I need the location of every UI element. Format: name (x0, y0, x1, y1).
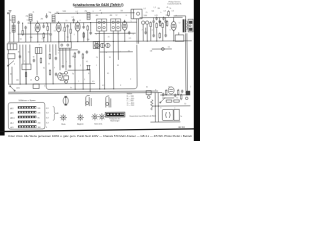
svg-text:S: S (162, 96, 163, 98)
oscillator coil L5 (87, 13, 90, 20)
wire top thin bus (55, 12, 135, 15)
resistor R12 (159, 32, 161, 38)
wire right top bus (140, 16, 183, 18)
wire (37, 33, 39, 41)
lamp icon C (106, 96, 111, 108)
left black bar (0, 0, 5, 136)
svg-text:300: 300 (38, 127, 41, 129)
svg-text:300: 300 (30, 37, 33, 39)
svg-text:23: 23 (128, 51, 130, 53)
wire (98, 31, 100, 89)
IF transformer T1 (97, 19, 107, 31)
svg-text:6,3: 6,3 (46, 117, 48, 119)
resistor R7 (87, 25, 89, 31)
resistor R23 (165, 89, 167, 95)
svg-text:0,1: 0,1 (107, 73, 109, 75)
resistor R4 (64, 26, 66, 32)
resistor R18 (82, 53, 84, 59)
band filter can A (7, 44, 17, 50)
svg-text:0,6: 0,6 (172, 10, 174, 12)
svg-text:Skala: Skala (61, 124, 65, 126)
svg-text:8: 8 (80, 20, 81, 22)
capacitor C1 (17, 21, 19, 25)
svg-text:0,1: 0,1 (168, 46, 170, 48)
output transformer T5 (183, 19, 185, 32)
svg-text:Unter Umst. Alle Werte gemess: Unter Umst. Alle Werte gemessen 100% u. … (8, 135, 193, 138)
svg-text:25p: 25p (85, 11, 88, 13)
capacitor C8 (82, 25, 84, 29)
zigzag resistor (151, 100, 153, 111)
svg-text:6: 6 (170, 29, 171, 31)
capacitor C30 (155, 17, 157, 21)
lamp icon A (63, 97, 68, 105)
capacitor C5 (45, 15, 47, 19)
resistor R14 (40, 57, 42, 63)
svg-text:12: 12 (116, 15, 118, 17)
svg-text:4: 4 (46, 127, 47, 129)
wire mid bus segment (95, 32, 136, 34)
legend list (127, 93, 134, 107)
svg-text:245: 245 (38, 108, 41, 110)
wire chassis bus (8, 41, 192, 42)
wire lower row line (100, 51, 133, 53)
capacitor C12 (158, 20, 160, 24)
svg-text:1,2: 1,2 (154, 7, 156, 9)
sun knob icons (60, 114, 67, 121)
wire left mid segment (18, 33, 50, 35)
svg-text:4: 4 (152, 30, 153, 32)
small box (146, 91, 151, 95)
pickup jack circle (65, 71, 68, 74)
resistor R25 (159, 20, 161, 26)
wire (82, 59, 84, 89)
coil L2 (12, 25, 15, 32)
resistor R22 horizontal (174, 100, 180, 102)
switch arm (8, 61, 14, 66)
psu circle small (185, 97, 188, 100)
capacitor C2 (24, 26, 26, 30)
wire under tuning block (58, 49, 78, 51)
svg-text:5000: 5000 (144, 15, 148, 17)
svg-text:25: 25 (108, 36, 110, 38)
svg-text:a: a (58, 52, 59, 54)
svg-text:2: 2 (44, 85, 45, 87)
wire drops right cluster (142, 24, 144, 41)
tuning block (59, 42, 72, 49)
svg-text:2: 2 (190, 86, 191, 88)
svg-text:2: 2 (80, 65, 81, 67)
svg-text:20p: 20p (26, 16, 29, 18)
capacitor C28 (162, 93, 164, 97)
trafo box 2 (174, 109, 180, 120)
speaker (188, 19, 193, 32)
svg-text:50: 50 (176, 97, 178, 99)
wire top bus (28, 21, 137, 24)
coil box L6 (35, 47, 42, 53)
tube V6 triode (58, 73, 63, 80)
socket circles (95, 43, 99, 47)
capacitor C4 (50, 33, 52, 37)
wire left bottom bus (8, 83, 95, 86)
svg-text:0,3: 0,3 (164, 10, 166, 12)
IF transformer T2 (111, 19, 121, 31)
svg-text:6: 6 (42, 38, 43, 40)
svg-text:5: 5 (96, 34, 97, 36)
svg-text:Dokumentation A: Dokumentation A (168, 3, 183, 6)
svg-text:2: 2 (62, 30, 63, 32)
svg-text:0,25: 0,25 (155, 15, 158, 17)
wire lower bus pair (8, 91, 158, 92)
svg-text:c4: c4 (100, 10, 102, 12)
capacitor C14 (144, 31, 146, 35)
capacitor C13 (164, 20, 166, 24)
trimmer circle (35, 76, 39, 80)
capacitor C19 (55, 73, 57, 77)
svg-text:0,5: 0,5 (129, 38, 131, 40)
coil L1 (12, 16, 15, 23)
capacitor C10 (128, 31, 130, 35)
wire (30, 21, 32, 42)
svg-text:9: 9 (54, 67, 55, 69)
wire verticals left mid (19, 45, 21, 84)
capacitor C16 (19, 55, 21, 59)
dial lamp box (131, 9, 142, 19)
svg-text:b: b (106, 52, 107, 54)
psu dark box (186, 91, 191, 96)
wire (173, 17, 175, 19)
svg-text:50: 50 (67, 37, 69, 39)
svg-text:70: 70 (96, 57, 98, 59)
svg-text:0,2: 0,2 (76, 11, 78, 13)
wire psu bottom (150, 121, 180, 123)
svg-text:4: 4 (178, 89, 179, 91)
resistor R8 (150, 21, 152, 27)
resistor R5 (70, 28, 72, 34)
wire (18, 24, 20, 42)
svg-text:0,1: 0,1 (43, 67, 45, 69)
wire (74, 58, 76, 89)
wire (22, 23, 24, 29)
svg-text:0,1: 0,1 (86, 61, 88, 63)
wire (58, 33, 60, 41)
svg-text:250: 250 (38, 122, 41, 124)
resistor R24 (180, 94, 182, 100)
svg-text:25: 25 (168, 86, 170, 88)
wire stubs (60, 73, 64, 75)
svg-text:6: 6 (150, 109, 151, 111)
pickup jack circle 2 (65, 80, 68, 83)
capacitor C29 (174, 94, 176, 98)
svg-text:Skalenzeiger: Skalenzeiger (110, 120, 120, 122)
svg-text:Abgleich: Abgleich (77, 122, 84, 125)
svg-text:460: 460 (96, 15, 99, 17)
resistor R9 (156, 22, 158, 28)
svg-text:35: 35 (109, 57, 111, 59)
capacitor C15 (153, 34, 155, 38)
svg-text:0,1: 0,1 (54, 30, 56, 32)
capacitor C22 (78, 50, 80, 54)
svg-text:T: T (78, 81, 79, 83)
wire verticals mid (45, 44, 47, 60)
tube V2 (56, 21, 61, 33)
cable connector mark (86, 65, 90, 70)
resistor R6 (83, 32, 85, 38)
resistor R1 (22, 29, 24, 35)
wire (7, 50, 9, 54)
psu wire (160, 94, 188, 96)
feedthrough box (93, 42, 99, 49)
svg-text:50k: 50k (152, 11, 155, 13)
svg-text:1k: 1k (170, 8, 172, 10)
svg-text:1: 1 (96, 65, 97, 67)
svg-text:L: L (24, 61, 25, 63)
svg-text:45: 45 (167, 7, 169, 9)
capacitor C31 (162, 17, 164, 21)
antenna (9, 11, 12, 13)
wire (112, 31, 114, 89)
wire stubs row1 (43, 23, 45, 25)
wire (178, 32, 180, 34)
svg-text:8: 8 (118, 34, 119, 36)
resistor R11 (168, 10, 170, 16)
psu wire 2 (162, 97, 174, 99)
coil L4 (52, 15, 55, 22)
capacitor C9 (89, 31, 91, 35)
wire stubs right (153, 18, 155, 20)
junction dots (19, 12, 187, 108)
capacitor C18 (55, 57, 57, 61)
svg-text:1: 1 (35, 31, 36, 33)
table row white dots (19, 107, 36, 128)
wire psu verticals (154, 93, 156, 122)
svg-text:50: 50 (184, 103, 186, 105)
capacitor C26 (181, 90, 183, 94)
svg-text:AZ1: AZ1 (10, 126, 13, 129)
mains switch (160, 97, 165, 102)
wire (103, 31, 105, 89)
table brace (53, 106, 56, 120)
wire drops under tuning block (59, 48, 61, 70)
wire (124, 32, 126, 41)
resistor R10 (162, 22, 164, 28)
tube V4 (122, 20, 127, 32)
svg-text:5000: 5000 (63, 11, 67, 13)
switch block (22, 64, 31, 70)
svg-text:460: 460 (110, 15, 113, 17)
connector box (33, 84, 39, 89)
wire (25, 29, 27, 42)
resistor R3 (47, 25, 49, 31)
svg-text:Schaltschema für G426 (Tafeln: Schaltschema für G426 (Tafeln I) (73, 3, 124, 7)
svg-text:7: 7 (142, 30, 143, 32)
checkered label box (105, 112, 125, 117)
svg-text:0,1: 0,1 (27, 20, 29, 22)
svg-text:E: E (10, 33, 11, 35)
wire (173, 32, 175, 41)
svg-text:O — 500: O — 500 (127, 105, 134, 107)
wire psu bus (152, 105, 190, 107)
svg-text:0,5: 0,5 (28, 52, 30, 54)
svg-text:Gezeichnet nach Muster ab Werk: Gezeichnet nach Muster ab Werk (129, 115, 156, 118)
svg-text:85: 85 (10, 74, 12, 76)
table row labels (10, 107, 48, 129)
svg-text:4: 4 (37, 20, 38, 22)
wire (117, 31, 119, 60)
table frame (8, 102, 45, 129)
capacitor C23 (86, 50, 88, 54)
svg-text:5p: 5p (72, 73, 74, 75)
svg-text:15: 15 (66, 20, 68, 22)
band filter can B (8, 54, 15, 59)
svg-text:a1: a1 (33, 12, 35, 14)
svg-text:6,3: 6,3 (46, 113, 48, 115)
svg-text:AK2: AK2 (10, 107, 13, 110)
wire (13, 23, 15, 42)
svg-text:25: 25 (48, 63, 50, 65)
capacitor C32 (165, 34, 167, 38)
power: rectifier tube (168, 87, 174, 94)
wire vert (89, 70, 91, 92)
svg-text:5: 5 (84, 79, 85, 81)
svg-text:8: 8 (155, 90, 156, 92)
detector diode circles (141, 21, 144, 24)
wire (25, 78, 27, 84)
lamp icon B (86, 96, 92, 107)
resistor R20 (177, 89, 179, 95)
svg-text:220: 220 (16, 80, 19, 82)
wire (46, 13, 48, 14)
svg-text:T: T (39, 44, 40, 46)
svg-text:5: 5 (131, 21, 132, 23)
resistor R16 (49, 69, 51, 75)
coil L3 (29, 14, 32, 21)
svg-text:9: 9 (133, 34, 134, 36)
resistor R26 (166, 20, 168, 26)
resistor R15 (49, 53, 51, 59)
svg-text:3: 3 (93, 11, 94, 13)
svg-text:AF3: AF3 (10, 112, 13, 115)
svg-text:0,5: 0,5 (102, 85, 104, 87)
scattered value labels (10, 7, 192, 119)
resistor R13 (25, 71, 27, 77)
capacitor C6 (66, 24, 68, 28)
tube V3 mixer (75, 21, 80, 33)
svg-text:50p: 50p (49, 12, 52, 14)
capacitor C11 (152, 20, 154, 24)
svg-text:70: 70 (146, 12, 148, 14)
svg-text:6,3: 6,3 (46, 122, 48, 124)
svg-text:25k: 25k (166, 15, 169, 17)
connector J1 (64, 76, 69, 80)
capacitor C3 (42, 25, 44, 29)
capacitor C21 (69, 64, 71, 68)
switch S3 bottom left (10, 86, 15, 91)
mains transformer box (162, 109, 173, 120)
right black bar (194, 0, 200, 141)
tube V1 (35, 21, 40, 33)
shield line (136, 19, 138, 44)
svg-text:0,1: 0,1 (144, 8, 146, 10)
svg-text:ABC1: ABC1 (10, 117, 14, 120)
wire transformer drop (185, 33, 187, 92)
svg-text:3: 3 (74, 34, 75, 36)
capacitor C20 (62, 64, 64, 68)
wire across (68, 69, 90, 71)
svg-text:6,3: 6,3 (46, 108, 48, 110)
svg-text:0,5: 0,5 (92, 81, 94, 83)
svg-text:70: 70 (52, 20, 54, 22)
svg-text:12: 12 (179, 22, 181, 24)
svg-text:50: 50 (20, 39, 22, 41)
bottom rule (0, 128, 194, 132)
svg-text:b2: b2 (57, 12, 59, 14)
svg-text:245: 245 (38, 113, 41, 115)
wire heater loop (46, 45, 137, 90)
capacitor C17 (33, 59, 35, 63)
svg-text:14: 14 (30, 80, 32, 82)
resistor R17 (74, 52, 76, 58)
svg-text:Kern einst.: Kern einst. (94, 122, 103, 125)
page background (0, 0, 200, 141)
svg-text:0,5: 0,5 (72, 17, 74, 19)
wire antenna drop (9, 13, 11, 42)
svg-text:V-Röhren u. Spann.: V-Röhren u. Spann. (18, 100, 36, 102)
svg-text:AL4: AL4 (10, 121, 13, 124)
volume pot (152, 48, 172, 50)
svg-text:5x: 5x (180, 116, 182, 118)
tube V5 output (171, 20, 176, 32)
svg-text:3: 3 (160, 108, 161, 110)
svg-text:44: 44 (117, 65, 119, 67)
resistor R21 horizontal (166, 100, 172, 102)
svg-text:3: 3 (130, 79, 131, 81)
table rows (18, 106, 37, 128)
svg-text:700: 700 (87, 39, 90, 41)
wire to transformer (174, 16, 186, 20)
wire (77, 33, 79, 42)
cathode box (175, 35, 184, 42)
resistor R2 (43, 32, 45, 38)
wire (36, 53, 38, 75)
svg-text:6: 6 (120, 85, 121, 87)
capacitor C7 (72, 18, 74, 22)
svg-text:85: 85 (38, 117, 40, 119)
